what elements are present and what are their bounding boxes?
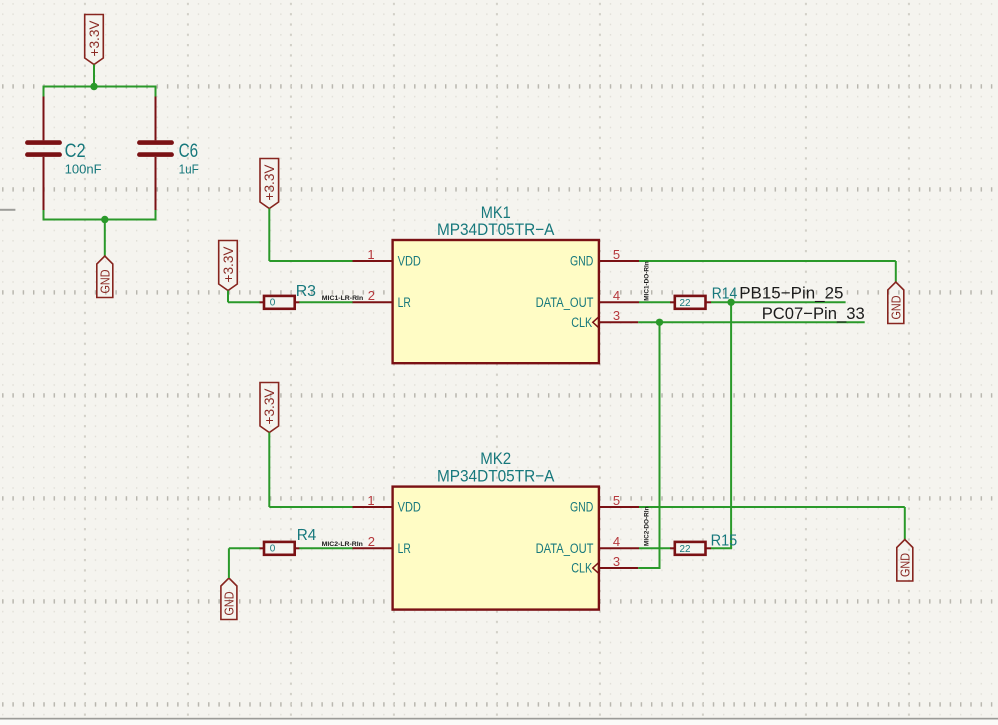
svg-text:2: 2 bbox=[368, 534, 375, 549]
wire MK1 DATA_OUT to R14 bbox=[639, 301, 671, 303]
pin stub R14 left bbox=[670, 301, 675, 303]
wire MK1 GND to right bbox=[639, 260, 896, 262]
svg-text:+3.3V: +3.3V bbox=[221, 247, 236, 283]
svg-text:PB15−Pin_25: PB15−Pin_25 bbox=[739, 284, 843, 303]
svg-text:1: 1 bbox=[367, 493, 374, 508]
resistor R15 bbox=[675, 542, 706, 555]
capacitor C6 bbox=[137, 97, 174, 212]
svg-text:R15: R15 bbox=[711, 533, 738, 550]
svg-text:+3.3V: +3.3V bbox=[262, 389, 277, 425]
svg-text:GND: GND bbox=[890, 296, 904, 320]
wire top bus bbox=[44, 86, 156, 88]
wire MK1 CLK to right bbox=[638, 321, 865, 323]
svg-text:GND: GND bbox=[223, 592, 237, 616]
ground GND03 (left of R4) bbox=[221, 578, 237, 620]
pin 3 stub MK1 CLK bbox=[599, 321, 638, 323]
wire to MK1 VDD bbox=[269, 260, 353, 262]
power symbol PWR03 +3.3V (above R3) bbox=[219, 241, 238, 291]
svg-text:LR: LR bbox=[398, 295, 411, 310]
wire R15 to vertical bus bbox=[711, 547, 732, 549]
pin stub R3 left bbox=[260, 301, 265, 303]
svg-text:MK1: MK1 bbox=[481, 203, 511, 222]
junction at bottom bus bbox=[101, 216, 108, 223]
svg-text:PC07−Pin_33: PC07−Pin_33 bbox=[762, 304, 865, 323]
svg-text:MIC1-DO-RIn: MIC1-DO-RIn bbox=[644, 261, 650, 301]
wire GND03 to R4 bbox=[229, 547, 260, 549]
svg-text:3: 3 bbox=[613, 554, 620, 569]
wire down to GND04 bbox=[904, 507, 906, 540]
junction on CLK net bbox=[656, 319, 663, 326]
svg-text:CLK: CLK bbox=[571, 315, 592, 330]
pin 2 stub MK1 LR bbox=[353, 301, 393, 303]
wire PWR02 down bbox=[268, 209, 270, 262]
ground GND02 (right of MK1) bbox=[888, 282, 904, 324]
svg-text:MIC2-DO-RIn: MIC2-DO-RIn bbox=[644, 506, 650, 546]
svg-text:C2: C2 bbox=[65, 141, 86, 162]
wire PWR03 to R3 bbox=[228, 301, 260, 303]
svg-text:22: 22 bbox=[680, 544, 691, 555]
component body MK2 bbox=[393, 487, 599, 610]
ground GND01 (top left block) bbox=[97, 256, 113, 298]
pin stub R15 right bbox=[705, 547, 711, 549]
svg-text:MK2: MK2 bbox=[480, 449, 511, 468]
wire C6 bottom lead bbox=[155, 210, 157, 221]
pin 2 stub MK2 LR bbox=[353, 547, 393, 549]
junction at top bus bbox=[90, 83, 97, 90]
power symbol PWR02 +3.3V (above MK1 VDD) bbox=[260, 159, 279, 209]
resistor R14 bbox=[675, 296, 706, 309]
svg-text:100nF: 100nF bbox=[65, 163, 102, 177]
svg-text:3: 3 bbox=[613, 308, 620, 323]
svg-text:5: 5 bbox=[613, 247, 620, 262]
svg-text:GND: GND bbox=[570, 254, 593, 269]
wire R14 to label end bbox=[711, 301, 846, 303]
wire C2 top lead bbox=[43, 86, 45, 98]
pin 4 stub MK2 DATA_OUT bbox=[599, 547, 639, 549]
wire GND03 up bbox=[228, 548, 230, 578]
svg-text:GND: GND bbox=[99, 270, 113, 294]
svg-text:1: 1 bbox=[367, 247, 374, 262]
svg-text:DATA_OUT: DATA_OUT bbox=[536, 541, 594, 556]
pin stub R4 left bbox=[260, 547, 265, 549]
wire PWR03 down bbox=[227, 291, 229, 303]
power symbol PWR01 +3.3V (top left) bbox=[85, 15, 104, 65]
resistor R4 bbox=[264, 542, 295, 555]
svg-text:VDD: VDD bbox=[398, 254, 421, 269]
svg-text:5: 5 bbox=[613, 493, 620, 508]
wire C2 bottom lead bbox=[43, 210, 45, 221]
svg-text:+3.3V: +3.3V bbox=[87, 21, 102, 57]
wire vertical DATA_OUT bus to R15 bbox=[730, 302, 732, 548]
wire MK2 DATA_OUT to R15 bbox=[639, 547, 671, 549]
svg-text:0: 0 bbox=[270, 297, 276, 308]
svg-text:0: 0 bbox=[270, 543, 276, 554]
clock mark MK2 CLK bbox=[593, 562, 600, 575]
pin 5 stub MK2 GND bbox=[599, 506, 639, 508]
svg-text:MP34DT05TR−A: MP34DT05TR−A bbox=[437, 467, 555, 486]
pin stub R4 right bbox=[295, 547, 300, 549]
wire R4 to MK2 LR bbox=[299, 547, 353, 549]
pin 5 stub MK1 GND bbox=[599, 260, 639, 262]
svg-text:C6: C6 bbox=[179, 141, 199, 162]
pin stub R14 right bbox=[705, 301, 711, 303]
wire PWR04 down bbox=[268, 433, 270, 508]
wire C6 top lead bbox=[155, 86, 157, 98]
svg-text:1uF: 1uF bbox=[179, 163, 200, 177]
wire bottom bus to GND bbox=[104, 220, 106, 257]
pin 3 stub MK2 CLK bbox=[599, 567, 638, 569]
pin stub R3 right bbox=[295, 301, 300, 303]
wire bottom bus bbox=[44, 219, 156, 221]
component body MK1 bbox=[393, 240, 599, 363]
wire to MK2 VDD bbox=[269, 506, 353, 508]
svg-text:DATA_OUT: DATA_OUT bbox=[536, 295, 594, 310]
ground GND04 (right of MK2) bbox=[897, 540, 913, 582]
svg-text:22: 22 bbox=[680, 298, 691, 309]
wire R3 to MK1 LR bbox=[299, 301, 353, 303]
pin 4 stub MK1 DATA_OUT bbox=[599, 301, 639, 303]
svg-text:GND: GND bbox=[570, 500, 593, 515]
junction on DATA_OUT net bbox=[727, 299, 734, 306]
resistor R3 bbox=[264, 296, 295, 309]
wire down to GND02 bbox=[895, 261, 897, 282]
svg-text:4: 4 bbox=[613, 288, 620, 303]
svg-text:GND: GND bbox=[899, 553, 913, 577]
capacitor C2 bbox=[25, 97, 62, 212]
svg-text:R4: R4 bbox=[297, 527, 317, 544]
svg-text:+3.3V: +3.3V bbox=[262, 165, 277, 201]
svg-text:VDD: VDD bbox=[398, 500, 421, 515]
wire from PWR01 to top bus bbox=[93, 65, 95, 87]
pin 1 stub MK1 VDD bbox=[353, 260, 393, 262]
power symbol PWR04 +3.3V (above MK2 VDD) bbox=[260, 383, 279, 433]
clock mark MK1 CLK bbox=[593, 316, 600, 329]
svg-text:R3: R3 bbox=[296, 283, 316, 300]
svg-text:LR: LR bbox=[398, 541, 411, 556]
pin 1 stub MK2 VDD bbox=[353, 506, 393, 508]
svg-text:4: 4 bbox=[613, 534, 620, 549]
wire MK2 CLK to vertical bus bbox=[638, 567, 660, 569]
svg-text:CLK: CLK bbox=[571, 561, 592, 576]
svg-text:2: 2 bbox=[368, 288, 375, 303]
pin stub R15 left bbox=[670, 547, 675, 549]
wire vertical CLK bus to MK2 bbox=[659, 322, 661, 568]
wire MK2 GND to right bbox=[639, 506, 905, 508]
svg-text:MIC1-LR-RIn: MIC1-LR-RIn bbox=[322, 296, 364, 302]
svg-text:MIC2-LR-RIn: MIC2-LR-RIn bbox=[322, 542, 363, 548]
svg-text:MP34DT05TR−A: MP34DT05TR−A bbox=[437, 220, 555, 239]
